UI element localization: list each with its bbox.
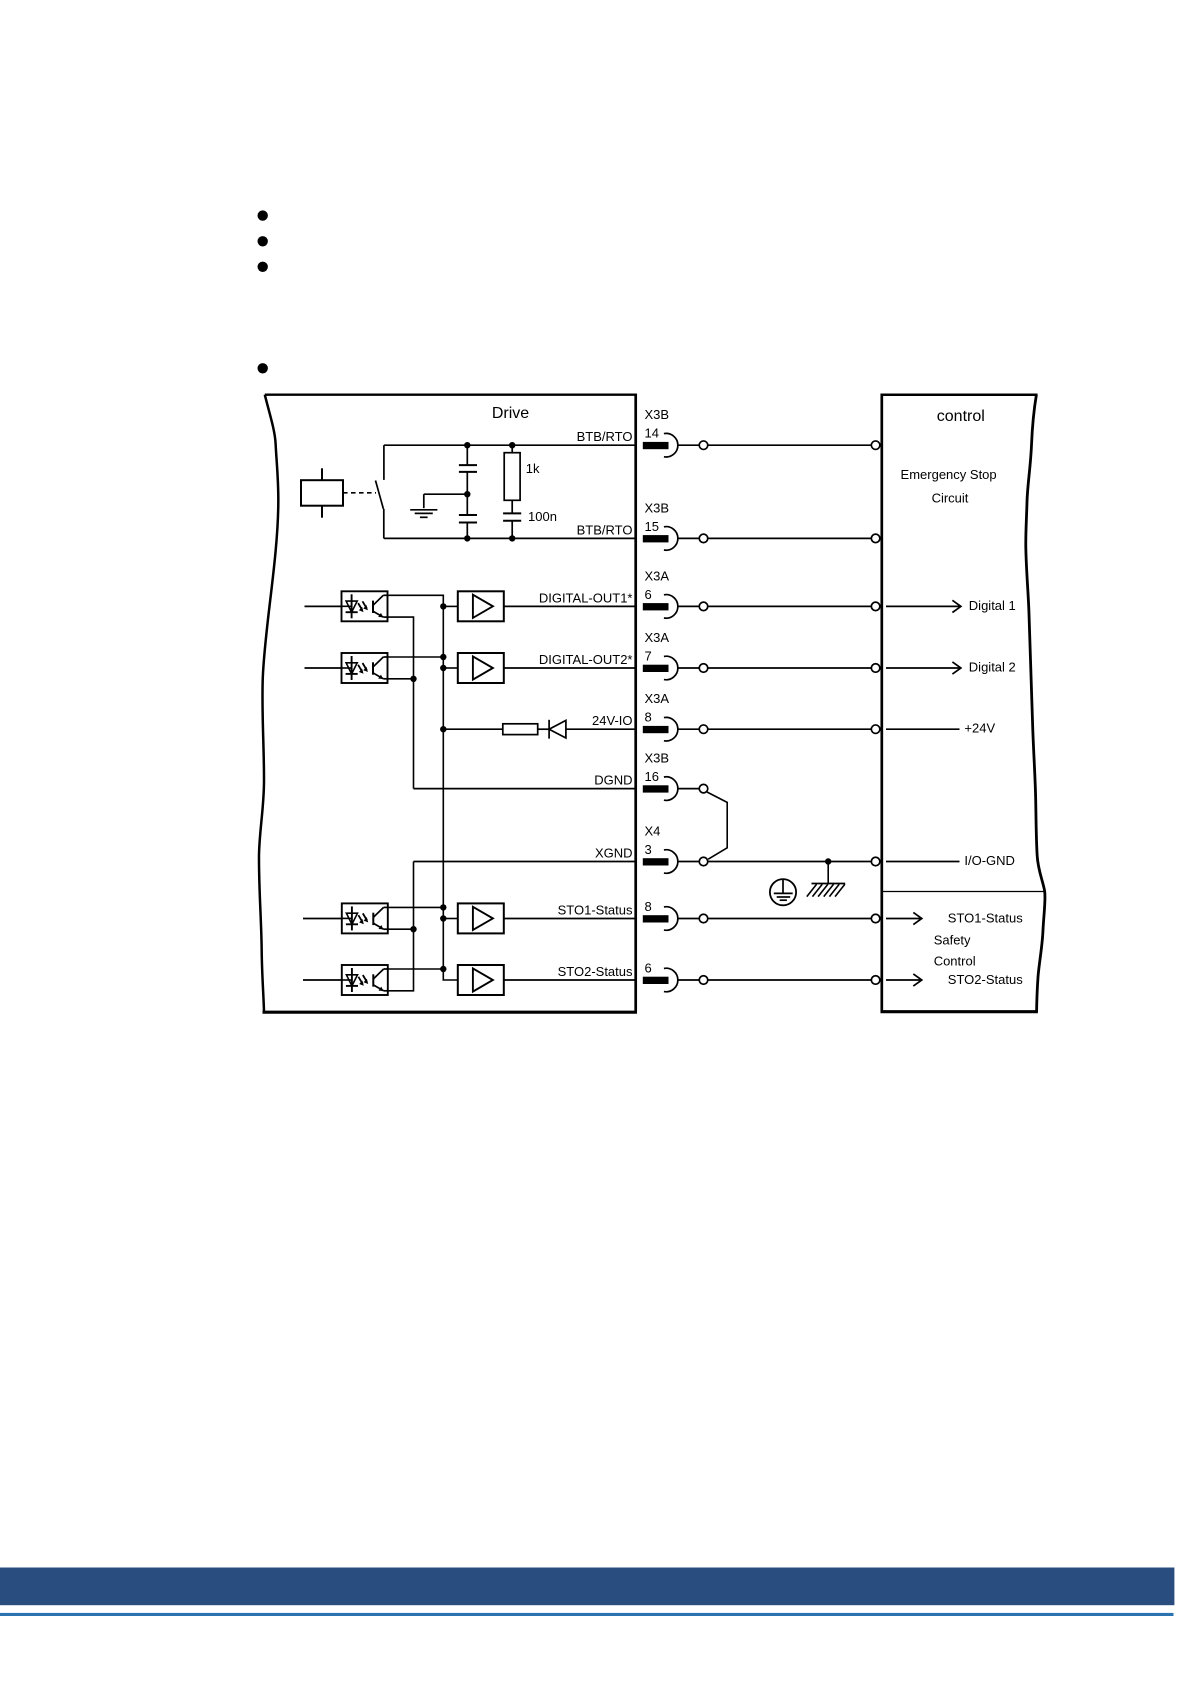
- connector pin X4-6: socket arc: [664, 968, 678, 992]
- svg-text:24V-IO: 24V-IO: [592, 713, 632, 728]
- control edge circle BTB/RTO-14: [871, 441, 880, 450]
- svg-text:X3A: X3A: [645, 568, 670, 583]
- wire arc to circle X3A-7: [678, 667, 700, 669]
- node bus A / 24V-IO: [440, 726, 446, 732]
- wire inside control DIGITAL-OUT2 with arrow: [886, 667, 959, 669]
- wire diode to edge: [566, 728, 637, 730]
- wire opto U3 collector branch: [388, 906, 444, 908]
- protective earth symbol: [770, 879, 796, 905]
- wire STO1-Status: terminal circle to control: [708, 918, 872, 920]
- wire opto U2 emitter branch: [388, 678, 414, 680]
- optocoupler U1: [342, 591, 388, 621]
- control edge circle STO2-Status: [871, 976, 880, 985]
- wire arc to circle X3B-14: [678, 444, 700, 446]
- node: top rail junctions: [464, 442, 470, 448]
- svg-text:Digital 2: Digital 2: [969, 660, 1016, 675]
- wire inside control STO2-Status with arrow: [886, 979, 920, 981]
- buffer driver U5: [458, 591, 504, 621]
- resistor R1 1k: [511, 445, 513, 453]
- wire opto U4 collector branch: [388, 968, 444, 970]
- control edge circle DIGITAL-OUT1: [871, 602, 880, 611]
- wire arc to circle X4-8: [678, 918, 700, 920]
- wire XGND to opto emitters: [388, 862, 414, 991]
- wire arc to circle X3A-6: [678, 605, 700, 607]
- svg-text:6: 6: [645, 961, 652, 976]
- svg-text:I/O-GND: I/O-GND: [964, 853, 1015, 868]
- bullet point 1: [258, 210, 268, 220]
- svg-text:control: control: [937, 408, 985, 425]
- Drive box outline: [259, 394, 637, 1013]
- node: bottom rail junctions: [464, 535, 470, 541]
- terminal circle X3A-6: [699, 602, 708, 611]
- wire DIGITAL-OUT1: terminal circle to control: [708, 605, 872, 607]
- svg-text:8: 8: [645, 710, 652, 725]
- control edge circle 24V-IO: [871, 725, 880, 734]
- wire input to optocoupler U3: [303, 918, 342, 920]
- wire buffer U6 output: [504, 667, 637, 669]
- wire input to optocoupler U4: [303, 979, 342, 981]
- svg-text:Control: Control: [934, 953, 976, 968]
- node: cap midpoint: [464, 491, 470, 497]
- svg-text:15: 15: [645, 519, 659, 534]
- svg-text:Safety: Safety: [934, 933, 971, 948]
- resistor R2: [503, 724, 538, 735]
- svg-text:XGND: XGND: [595, 846, 633, 861]
- svg-text:BTB/RTO: BTB/RTO: [577, 429, 633, 444]
- connector pin X3A-7: socket arc: [664, 656, 678, 680]
- wire STO2-Status: terminal circle to control: [708, 979, 872, 981]
- wire input to optocoupler U2: [305, 667, 342, 669]
- connector pin X3A-7: bar: [643, 665, 669, 672]
- wire buffer U7 input branch: [443, 918, 458, 920]
- wire bus A vertical: [388, 595, 458, 980]
- connector pin X4-8: socket arc: [664, 907, 678, 931]
- Safety Control divider: [882, 891, 1045, 893]
- relay coil K1: [301, 480, 343, 506]
- control edge circle BTB/RTO-15: [871, 534, 880, 543]
- svg-text:STO1-Status: STO1-Status: [948, 911, 1023, 926]
- wire inside control 24V-IO: [886, 728, 960, 730]
- connector pin X3B-16: socket arc: [664, 777, 678, 801]
- svg-text:16: 16: [645, 769, 659, 784]
- connector pin X3A-8: socket arc: [664, 717, 678, 741]
- svg-text:Emergency Stop: Emergency Stop: [901, 467, 997, 482]
- svg-text:STO2-Status: STO2-Status: [558, 964, 633, 979]
- footer bar: [0, 1568, 1174, 1606]
- svg-text:DIGITAL-OUT1*: DIGITAL-OUT1*: [539, 590, 633, 605]
- wire BTB/RTO-15: terminal circle to control: [708, 537, 872, 539]
- buffer driver U8: [458, 965, 504, 995]
- svg-text:X3B: X3B: [645, 500, 670, 515]
- connector pin X3B-14: socket arc: [664, 433, 678, 457]
- wire DGND row: [414, 788, 637, 790]
- optocoupler U4: [342, 965, 388, 995]
- wire arc to circle X4-3: [678, 861, 700, 863]
- wire arc to circle X3B-16: [678, 788, 700, 790]
- svg-text:X3B: X3B: [645, 751, 670, 766]
- control edge circle I/O-GND: [871, 857, 880, 866]
- svg-text:X4: X4: [645, 824, 661, 839]
- wire BTB/RTO bottom rail: [384, 537, 637, 539]
- bullet point 3: [258, 262, 268, 272]
- terminal circle X3B-15: [699, 534, 708, 543]
- link DGND to XGND jumper: [707, 792, 727, 859]
- wire inside control I/O-GND: [886, 861, 960, 863]
- connector pin X3B-15: bar: [643, 535, 669, 542]
- svg-text:7: 7: [645, 649, 652, 664]
- terminal circle X4-6: [699, 976, 708, 985]
- svg-text:100n: 100n: [528, 509, 557, 524]
- svg-text:X3A: X3A: [645, 630, 670, 645]
- svg-text:STO2-Status: STO2-Status: [948, 972, 1023, 987]
- optocoupler U2: [342, 653, 388, 683]
- switch contact S1: [383, 445, 385, 480]
- svg-text:3: 3: [645, 842, 652, 857]
- wire opto U3 emitter branch: [388, 928, 414, 930]
- capacitor C3 100n: [503, 512, 521, 514]
- wire arc to circle X3B-15: [678, 537, 700, 539]
- connector pin X3A-6: bar: [643, 603, 669, 610]
- svg-text:Circuit: Circuit: [932, 490, 969, 505]
- connector pin X3B-15: socket arc: [664, 527, 678, 551]
- svg-text:1k: 1k: [526, 461, 540, 476]
- connector pin X3A-8: bar: [643, 726, 669, 733]
- svg-text:DGND: DGND: [594, 773, 632, 788]
- wire resistor to diode: [538, 728, 549, 730]
- svg-text:DIGITAL-OUT2*: DIGITAL-OUT2*: [539, 652, 633, 667]
- wire I/O-GND: terminal circle to control: [708, 861, 872, 863]
- control box outline: [881, 394, 1046, 1013]
- signal ground symbol: [410, 509, 437, 511]
- control edge circle DIGITAL-OUT2: [871, 664, 880, 673]
- terminal circle X4-8: [699, 914, 708, 923]
- svg-text:X3A: X3A: [645, 691, 670, 706]
- chassis ground symbol: [812, 883, 846, 885]
- wire buffer U8 output: [504, 979, 637, 981]
- wire XGND row: [414, 861, 637, 863]
- wire 24V-IO: terminal circle to control: [708, 728, 872, 730]
- connector pin X4-8: bar: [643, 915, 669, 922]
- buffer driver U6: [458, 653, 504, 683]
- wire arc to circle X4-6: [678, 979, 700, 981]
- terminal circle X3A-8: [699, 725, 708, 734]
- svg-text:14: 14: [645, 426, 659, 441]
- connector pin X3B-14: bar: [643, 442, 669, 449]
- connector pin X4-6: bar: [643, 977, 669, 984]
- svg-text:+24V: +24V: [964, 721, 995, 736]
- wire arc to circle X3A-8: [678, 728, 700, 730]
- diode D1: [548, 720, 550, 739]
- capacitor C2: [466, 494, 468, 515]
- wire inside control STO1-Status with arrow: [886, 918, 920, 920]
- wire buffer U6 input branch: [443, 667, 458, 669]
- svg-text:Digital 1: Digital 1: [969, 598, 1016, 613]
- footer rule: [0, 1613, 1174, 1616]
- terminal circle X3B-16: [699, 784, 708, 793]
- bullet point 2: [258, 236, 268, 246]
- terminal circle X4-3: [699, 857, 708, 866]
- optocoupler U3: [342, 903, 388, 933]
- wire DIGITAL-OUT2: terminal circle to control: [708, 667, 872, 669]
- wire buffer U5 input branch: [443, 605, 458, 607]
- wire BTB/RTO top rail: [384, 444, 637, 446]
- svg-text:BTB/RTO: BTB/RTO: [577, 522, 633, 537]
- connector pin X4-3: bar: [643, 858, 669, 865]
- wire buffer U5 output: [504, 605, 637, 607]
- dashed actuator link: [343, 492, 376, 494]
- wire input to optocoupler U1: [305, 605, 342, 607]
- svg-text:6: 6: [645, 587, 652, 602]
- node XGND to earth: [825, 858, 831, 864]
- svg-text:Drive: Drive: [492, 405, 529, 422]
- svg-text:STO1-Status: STO1-Status: [558, 903, 633, 918]
- wire inside control DIGITAL-OUT1 with arrow: [886, 605, 959, 607]
- bullet point 4: [258, 363, 268, 373]
- connector pin X4-3: socket arc: [664, 850, 678, 874]
- wire bus B: opto emitters to DGND: [388, 617, 414, 789]
- wire buffer U7 output: [504, 918, 637, 920]
- buffer driver U7: [458, 903, 504, 933]
- wire BTB/RTO-14: terminal circle to control: [708, 444, 872, 446]
- capacitor C1: [466, 445, 468, 465]
- wire bus A to resistor R2: [443, 728, 503, 730]
- svg-text:X3B: X3B: [645, 407, 670, 422]
- svg-text:8: 8: [645, 899, 652, 914]
- terminal circle X3B-14: [699, 441, 708, 450]
- wire cap midpoint to ground: [424, 493, 468, 495]
- connector pin X3B-16: bar: [643, 785, 669, 792]
- terminal circle X3A-7: [699, 664, 708, 673]
- connector pin X3A-6: socket arc: [664, 595, 678, 619]
- wire opto U2 collector branch: [388, 656, 444, 658]
- control edge circle STO1-Status: [871, 914, 880, 923]
